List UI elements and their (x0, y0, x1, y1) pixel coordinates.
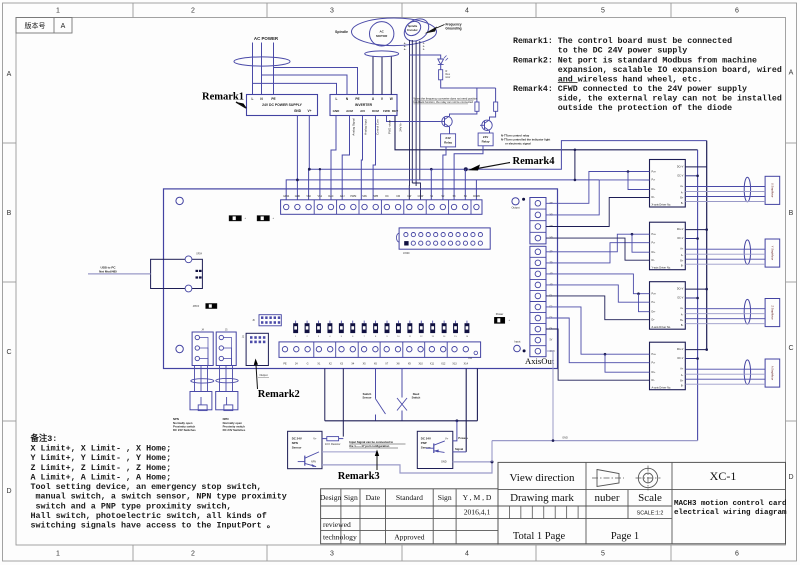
frame row ticks right (786, 142, 797, 144)
svg-text:6: 6 (735, 8, 739, 15)
svg-text:Dr-: Dr- (652, 259, 656, 262)
transformer cable ellipse (234, 57, 290, 66)
svg-text:PE: PE (283, 362, 287, 365)
svg-text:Pu-: Pu- (652, 179, 656, 182)
svg-text:View direction: View direction (509, 472, 575, 484)
svg-text:NPN: NPN (292, 441, 298, 445)
svg-text:Sensor: Sensor (421, 445, 432, 449)
svg-text:NPN: NPN (311, 460, 316, 463)
svg-text:V+: V+ (445, 436, 449, 440)
svg-text:feedback function, the relay c: feedback function, the relay can not be … (414, 100, 474, 104)
svg-text:Sign: Sign (438, 493, 452, 502)
svg-text:Hall switch, photoelectric swi: Hall switch, photoelectric switch, all k… (31, 511, 267, 521)
svg-text:MOTOR: MOTOR (376, 34, 388, 38)
svg-text:Standard: Standard (396, 493, 423, 502)
wire phase B+ A (685, 378, 765, 380)
driver U3 X-axis stepper driver (650, 160, 686, 208)
jumper 485R (206, 304, 217, 309)
svg-text:3: 3 (330, 8, 334, 15)
jumper JP1 on board (229, 216, 241, 221)
svg-text:FWD: FWD (383, 109, 391, 113)
wire phase A- X (685, 191, 765, 193)
title block outer (498, 462, 786, 543)
svg-text:side, the external relay can n: side, the external relay can not be inst… (558, 93, 782, 103)
svg-text:B-: B- (681, 385, 684, 388)
svg-text:electrical wiring diagram: electrical wiring diagram (674, 509, 787, 517)
wire input common bus (325, 420, 478, 422)
title block left table (321, 489, 498, 544)
svg-text:Y Limit+, Y Limit- , Y Home;: Y Limit+, Y Limit- , Y Home; (31, 453, 172, 463)
wire driver A DC+V to +24 bus (685, 349, 706, 351)
view direction circle symbol (638, 468, 657, 487)
svg-text:B-: B- (681, 265, 684, 268)
svg-text:Sign: Sign (344, 493, 358, 502)
svg-text:Dr+: Dr+ (652, 310, 657, 313)
sensor B2 PNP box (417, 431, 453, 468)
motor cable ellipse X (744, 177, 750, 202)
encoder terminal drop to SPA (408, 186, 410, 200)
svg-text:A: A (789, 69, 794, 76)
wire PNP signal to dark drop (453, 451, 466, 453)
wire branch to resistor R3 (495, 88, 497, 102)
wire driver Z DC+V to +24 bus (685, 288, 706, 290)
svg-text:Date: Date (366, 493, 381, 502)
svg-text:Dr-: Dr- (652, 318, 656, 321)
svg-text:A-: A- (681, 191, 684, 194)
wire phase A+ A (685, 368, 765, 370)
svg-text:reviewed: reviewed (323, 520, 351, 529)
connector AxisOut lower group (530, 246, 546, 356)
encoder wire C (415, 41, 417, 186)
mounting hole output with LED (512, 198, 519, 205)
svg-text:B: B (789, 210, 794, 217)
stepper motor M4 Z (765, 299, 780, 327)
overline for CFWD (558, 81, 578, 83)
connector J3 bottom terminal strip (279, 342, 481, 358)
mounting hole bottom-left (176, 345, 183, 352)
small aux circle J100 (474, 351, 478, 355)
node GND junction (491, 460, 494, 463)
svg-text:A Limit+, A Limit- , A Home;: A Limit+, A Limit- , A Home; (31, 472, 172, 482)
svg-text:Dr+: Dr+ (652, 188, 657, 191)
wire AC N phase (261, 43, 263, 95)
wire Pu- driver A (546, 318, 650, 363)
frame row ticks left (3, 142, 17, 144)
svg-text:A-: A- (681, 254, 684, 257)
svg-text:Relay: Relay (444, 140, 452, 144)
svg-text:PE: PE (271, 97, 275, 101)
wire phase B+ X (685, 196, 765, 198)
svg-text:Output: Output (511, 206, 519, 210)
node Remark4 junction CFWD (464, 167, 468, 171)
svg-text:2: 2 (191, 550, 195, 557)
svg-text:Dr+: Dr+ (652, 371, 657, 374)
spindle encoder outer ellipse (400, 14, 433, 45)
svg-text:6: 6 (735, 550, 739, 557)
wire Dr- driver X (546, 198, 650, 227)
resistor R1 vertical (439, 70, 443, 80)
wire VS0 terminal drop (308, 169, 310, 200)
svg-text:版本号: 版本号 (25, 21, 46, 30)
connector J2 IO module (246, 333, 268, 365)
wire R3 to Q2 (490, 111, 496, 120)
svg-text:Switch: Switch (363, 392, 372, 396)
svg-text:AxisOut: AxisOut (525, 356, 555, 366)
svg-text:X StepMotor: X StepMotor (771, 183, 775, 198)
wire inverter AVI drop (361, 116, 362, 200)
svg-text:5: 5 (601, 550, 605, 557)
wire inverter GND drop (331, 116, 336, 200)
wire phase A+ Z (685, 308, 765, 310)
svg-text:4: 4 (465, 550, 469, 557)
svg-text:Sensor: Sensor (292, 445, 303, 449)
wire GND junction riser (491, 441, 493, 462)
node GND rail junction (296, 179, 299, 182)
relay K1 24V Relay (441, 134, 456, 147)
wire GND terminal drop (296, 180, 298, 200)
svg-text:C: C (6, 349, 11, 356)
control board outline (164, 189, 558, 369)
svg-text:Remark4: Remark4 (513, 156, 556, 167)
svg-text:Remark2: Remark2 (258, 389, 300, 400)
svg-text:Input: Input (514, 340, 520, 344)
power supply U1 24V DC POWER SUPPLY (247, 95, 318, 116)
svg-text:24V: 24V (445, 136, 450, 140)
dip switch block S1-S16 (293, 323, 298, 333)
svg-text:24V: 24V (483, 135, 488, 139)
svg-text:and wireless hand wheel, etc.: and wireless hand wheel, etc. (558, 74, 702, 84)
svg-text:B-: B- (681, 202, 684, 205)
wire inverter FWD to relay (387, 116, 441, 122)
svg-text:D: D (6, 488, 11, 495)
svg-text:W: W (390, 97, 393, 101)
relay K2 24V Relay (478, 133, 493, 146)
diode D1 LED (438, 59, 444, 65)
svg-text:DC-V: DC-V (677, 237, 683, 240)
jumper JP2 on board (257, 216, 269, 221)
wire Q1 emitter to relay K1 (449, 127, 451, 134)
svg-text:2: 2 (191, 8, 195, 15)
wire CFWD terminal drop (464, 169, 466, 200)
svg-text:V+: V+ (313, 436, 317, 440)
svg-text:Design: Design (320, 493, 342, 502)
wire PNP V+ to bus (453, 421, 457, 441)
svg-text:XC-1: XC-1 (710, 469, 737, 483)
svg-text:1: 1 (56, 8, 60, 15)
svg-text:Reed: Reed (413, 392, 420, 396)
svg-text:X13: X13 (452, 362, 457, 365)
svg-text:SPA: SPA (362, 195, 367, 198)
connector J5 input (216, 332, 236, 366)
svg-text:DC-V: DC-V (677, 174, 683, 177)
wire phase B+ Y (685, 258, 765, 260)
wire NPN collector output (322, 451, 377, 453)
svg-text:Dr+: Dr+ (652, 251, 657, 254)
svg-text:24V V+: 24V V+ (399, 122, 403, 132)
wire driver A DC-V to DC- bus (685, 358, 697, 360)
wire phase B- Y (685, 263, 765, 265)
transistor Q3 NPN inside sensor (304, 456, 306, 466)
svg-text:A-axis Driver No.: A-axis Driver No. (652, 385, 672, 389)
motor M1 AC MOTOR circle (370, 22, 394, 46)
wire phase A+ Y (685, 248, 765, 250)
svg-text:istor: istor (446, 76, 451, 79)
svg-text:Pu+: Pu+ (652, 353, 657, 356)
svg-text:outside the protection of the: outside the protection of the diode (558, 103, 732, 113)
wire board drop dark A (465, 369, 467, 452)
stepper motor M2 X (765, 176, 780, 204)
svg-text:DC-V: DC-V (677, 357, 683, 360)
frame column ticks bottom (132, 545, 134, 561)
svg-text:OC: OC (385, 195, 389, 198)
wire CCW drop from GND rail (475, 180, 477, 200)
svg-text:V+: V+ (308, 109, 312, 113)
encoder terminal drop to SPB (412, 183, 420, 200)
svg-text:ACM: ACM (346, 109, 353, 113)
wire inverter ACM drop (342, 116, 349, 200)
svg-text:L: L (336, 97, 338, 101)
svg-text:GND: GND (562, 436, 568, 439)
motor cable ellipse A (744, 360, 750, 385)
svg-text:VS1: VS1 (318, 195, 323, 198)
wire phase A- Y (685, 253, 765, 255)
svg-text:A-: A- (681, 374, 684, 377)
encoder wire B (411, 40, 413, 183)
transistor Q2 with base circle (482, 120, 492, 130)
encoder wire A (409, 40, 411, 186)
wire Pu- driver Y (546, 243, 650, 263)
motor cable ellipse Y (744, 240, 750, 265)
svg-text:technology: technology (323, 533, 357, 542)
connector AxisOut upper group (530, 198, 546, 244)
svg-text:MACH3 motion control card: MACH3 motion control card (674, 500, 787, 508)
wire relay K1 to terminal S2 (443, 147, 446, 200)
svg-text:X11: X11 (430, 362, 435, 365)
svg-text:GND: GND (441, 461, 447, 464)
driver U5 Z-axis stepper driver (650, 282, 686, 330)
svg-text:AC POWER: AC POWER (254, 36, 279, 41)
wire board to reed switch (401, 369, 403, 398)
svg-text:Net Mod/485: Net Mod/485 (99, 269, 117, 273)
wire AC L phase (252, 43, 254, 95)
svg-text:DC 24V: DC 24V (292, 437, 302, 441)
wire GND rail (297, 116, 599, 180)
svg-text:B-: B- (423, 43, 425, 45)
svg-text:Switch: Switch (412, 396, 421, 400)
wire phase B- A (685, 383, 765, 385)
svg-text:备注3:: 备注3: (30, 433, 58, 444)
spindle motor coupling ellipse (365, 51, 399, 57)
svg-text:Tool setting device, an emerge: Tool setting device, an emergency stop s… (31, 482, 262, 492)
svg-text:Pu-: Pu- (652, 241, 656, 244)
svg-text:D: D (788, 474, 793, 481)
svg-text:Dr-: Dr- (652, 379, 656, 382)
svg-text:Power: Power (496, 312, 504, 316)
revision table top-left (16, 18, 72, 34)
svg-text:PE: PE (355, 97, 359, 101)
stepper motor M3 Y (765, 239, 780, 267)
stepper motor M5 A (765, 359, 780, 387)
svg-text:Output: Output (259, 373, 267, 377)
proximity switch SQ2 body (216, 392, 238, 410)
transistor Q1 with base circle (442, 116, 452, 126)
svg-text:GP24: GP24 (196, 254, 203, 256)
cable shield ellipse 1 (191, 379, 214, 383)
resistor R3 vertical (494, 102, 498, 111)
resistor R4 10K (327, 437, 339, 441)
svg-text:A StepMotor: A StepMotor (771, 366, 775, 380)
svg-text:Spindle: Spindle (335, 30, 348, 34)
node rail junction at 431 (430, 168, 433, 171)
wire relay K2 to terminal S3 (454, 146, 483, 200)
svg-text:DC 24V Switches: DC 24V Switches (223, 428, 246, 432)
cable wires J5 to proximity switch 2 (219, 366, 221, 392)
svg-text:Control Com: Control Com (376, 118, 380, 134)
svg-text:SPB: SPB (373, 195, 378, 198)
svg-text:Y , M , D: Y , M , D (463, 493, 492, 502)
spindle encoder inner ellipse (403, 18, 424, 38)
svg-text:DC 24V: DC 24V (421, 437, 431, 441)
node bus junction V+ pnp (456, 419, 459, 422)
svg-text:Pu-: Pu- (652, 301, 656, 304)
wire AxisOut GND drop to rail (546, 351, 553, 441)
wire phase B- Z (685, 323, 765, 325)
svg-text:Z-axis Driver No.: Z-axis Driver No. (652, 325, 672, 329)
svg-text:485 R: 485 R (193, 305, 200, 308)
svg-text:L: L (252, 97, 254, 101)
svg-text:Grounding: Grounding (445, 27, 461, 31)
svg-text:Dr-: Dr- (652, 196, 656, 199)
svg-text:CCW: CCW (418, 195, 424, 198)
wire PNP GND to junction (453, 461, 492, 463)
wire Pu- driver X (546, 180, 599, 215)
cable wires J4 to proximity switch 1 (194, 366, 196, 392)
view direction cone symbol (597, 470, 619, 487)
svg-text:B-: B- (423, 49, 425, 51)
pin header J8 expansion port (399, 228, 490, 249)
driver U4 Y-axis stepper driver (650, 222, 686, 270)
svg-text:DCM: DCM (372, 109, 379, 113)
wire GP24 drop from GND rail (286, 180, 297, 200)
svg-text:5: 5 (601, 8, 605, 15)
wire V+ rail to +24 bus (309, 116, 706, 170)
wire NPN GND return (322, 462, 492, 473)
wire CM drop from rail (430, 169, 432, 200)
connector J4 input (192, 332, 213, 366)
svg-text:J1500: J1500 (403, 252, 410, 255)
wire PE to inverter (274, 68, 358, 95)
svg-text:ADJ: ADJ (340, 195, 345, 198)
svg-text:Page 1: Page 1 (611, 531, 639, 542)
wire resistor to relay rail (441, 80, 496, 88)
wire driver Y DC+V to +24 bus (685, 229, 706, 231)
wire DC- spur to GND rail (574, 150, 576, 180)
mounting hole top-left (176, 197, 183, 204)
connector USB to PC (151, 259, 203, 288)
wire V phase to motor (381, 57, 383, 95)
svg-text:X12: X12 (441, 362, 446, 365)
cable shield ellipse 2 (216, 378, 238, 382)
svg-text:PNP: PNP (421, 441, 427, 445)
svg-text:A-: A- (681, 314, 684, 317)
wire driver X DC-V to DC- bus (685, 175, 697, 177)
wire common feed driver A (546, 307, 650, 354)
spindle housing ellipse (352, 18, 437, 46)
svg-text:3: 3 (330, 550, 334, 557)
svg-text:10 K Resistor: 10 K Resistor (325, 442, 341, 446)
svg-text:B: B (7, 210, 12, 217)
svg-text:C: C (788, 345, 793, 352)
svg-text:Drawing mark: Drawing mark (510, 492, 574, 504)
svg-text:Approved: Approved (394, 533, 425, 542)
wire phase A- A (685, 373, 765, 375)
bus DC- vertical (697, 150, 699, 441)
wire branch to resistor R2 (476, 88, 478, 102)
svg-text:Analog Input: Analog Input (364, 119, 368, 135)
svg-text:switching signals have access: switching signals have access to the Inp… (31, 521, 276, 531)
svg-text:Remark1: Remark1 (202, 91, 244, 102)
wire driver Z DC-V to DC- bus (685, 297, 697, 299)
svg-text:Remark2: Net port is standard: Remark2: Net port is standard Modbus fro… (513, 55, 757, 65)
wire VS1 terminal drop (319, 169, 321, 200)
svg-text:DC+V: DC+V (677, 348, 684, 351)
wire N to inverter (262, 75, 348, 95)
svg-text:REV: REV (392, 109, 398, 113)
svg-text:Analog Signal: Analog Signal (352, 118, 356, 136)
svg-text:GND: GND (295, 195, 301, 198)
connector J1 top terminal strip (281, 200, 482, 215)
svg-text:CFWD: CFWD (473, 195, 480, 198)
svg-text:When the frequency converter d: When the frequency converter does not ne… (414, 96, 478, 100)
node V+ rail junction (308, 168, 311, 171)
wire board drop X5 (324, 369, 326, 421)
sensor B1 NPN box (288, 431, 322, 468)
wire inverter DCM drop (373, 116, 375, 200)
svg-text:switch and a PNP type proximit: switch and a PNP type proximity switch, (36, 501, 232, 511)
svg-text:Sensor: Sensor (362, 396, 371, 400)
transistor Q4 PNP inside sensor (433, 443, 435, 453)
wire USB to PC (88, 273, 151, 275)
wire AC PE phase (273, 43, 275, 95)
svg-text:2016,4,1: 2016,4,1 (464, 508, 491, 517)
svg-text:Pu+: Pu+ (652, 233, 657, 236)
encoder wire D (419, 41, 421, 180)
svg-text:Scale: Scale (638, 492, 662, 504)
svg-text:DC-V: DC-V (677, 297, 683, 300)
svg-text:X14: X14 (464, 362, 469, 365)
wire inverter REV rail DC- (395, 116, 698, 150)
svg-text:Total 1 Page: Total 1 Page (513, 531, 566, 542)
svg-text:to the DC 24V power supply: to the DC 24V power supply (558, 46, 687, 56)
frame column ticks top (132, 3, 134, 18)
proximity switch SQ1 body (190, 392, 212, 410)
wire driver X DC+V to +24 bus (685, 166, 706, 168)
wire Dr- driver Y (546, 238, 650, 260)
svg-text:DC+V: DC+V (677, 166, 684, 169)
svg-text:Remark3: Remark3 (338, 471, 380, 482)
svg-text:GND: GND (294, 109, 302, 113)
bus +24V vertical dark (706, 141, 708, 350)
wire diode to resistor (440, 65, 442, 70)
svg-text:AVI: AVI (360, 109, 365, 113)
svg-text:Pu+: Pu+ (652, 293, 657, 296)
svg-text:DC+V: DC+V (677, 228, 684, 231)
svg-text:DAC: DAC (328, 195, 333, 198)
wire W phase to motor (390, 57, 392, 95)
svg-text:A: A (7, 71, 12, 78)
wire board drop X6 to resistor (342, 369, 344, 437)
svg-text:B-: B- (423, 46, 425, 48)
